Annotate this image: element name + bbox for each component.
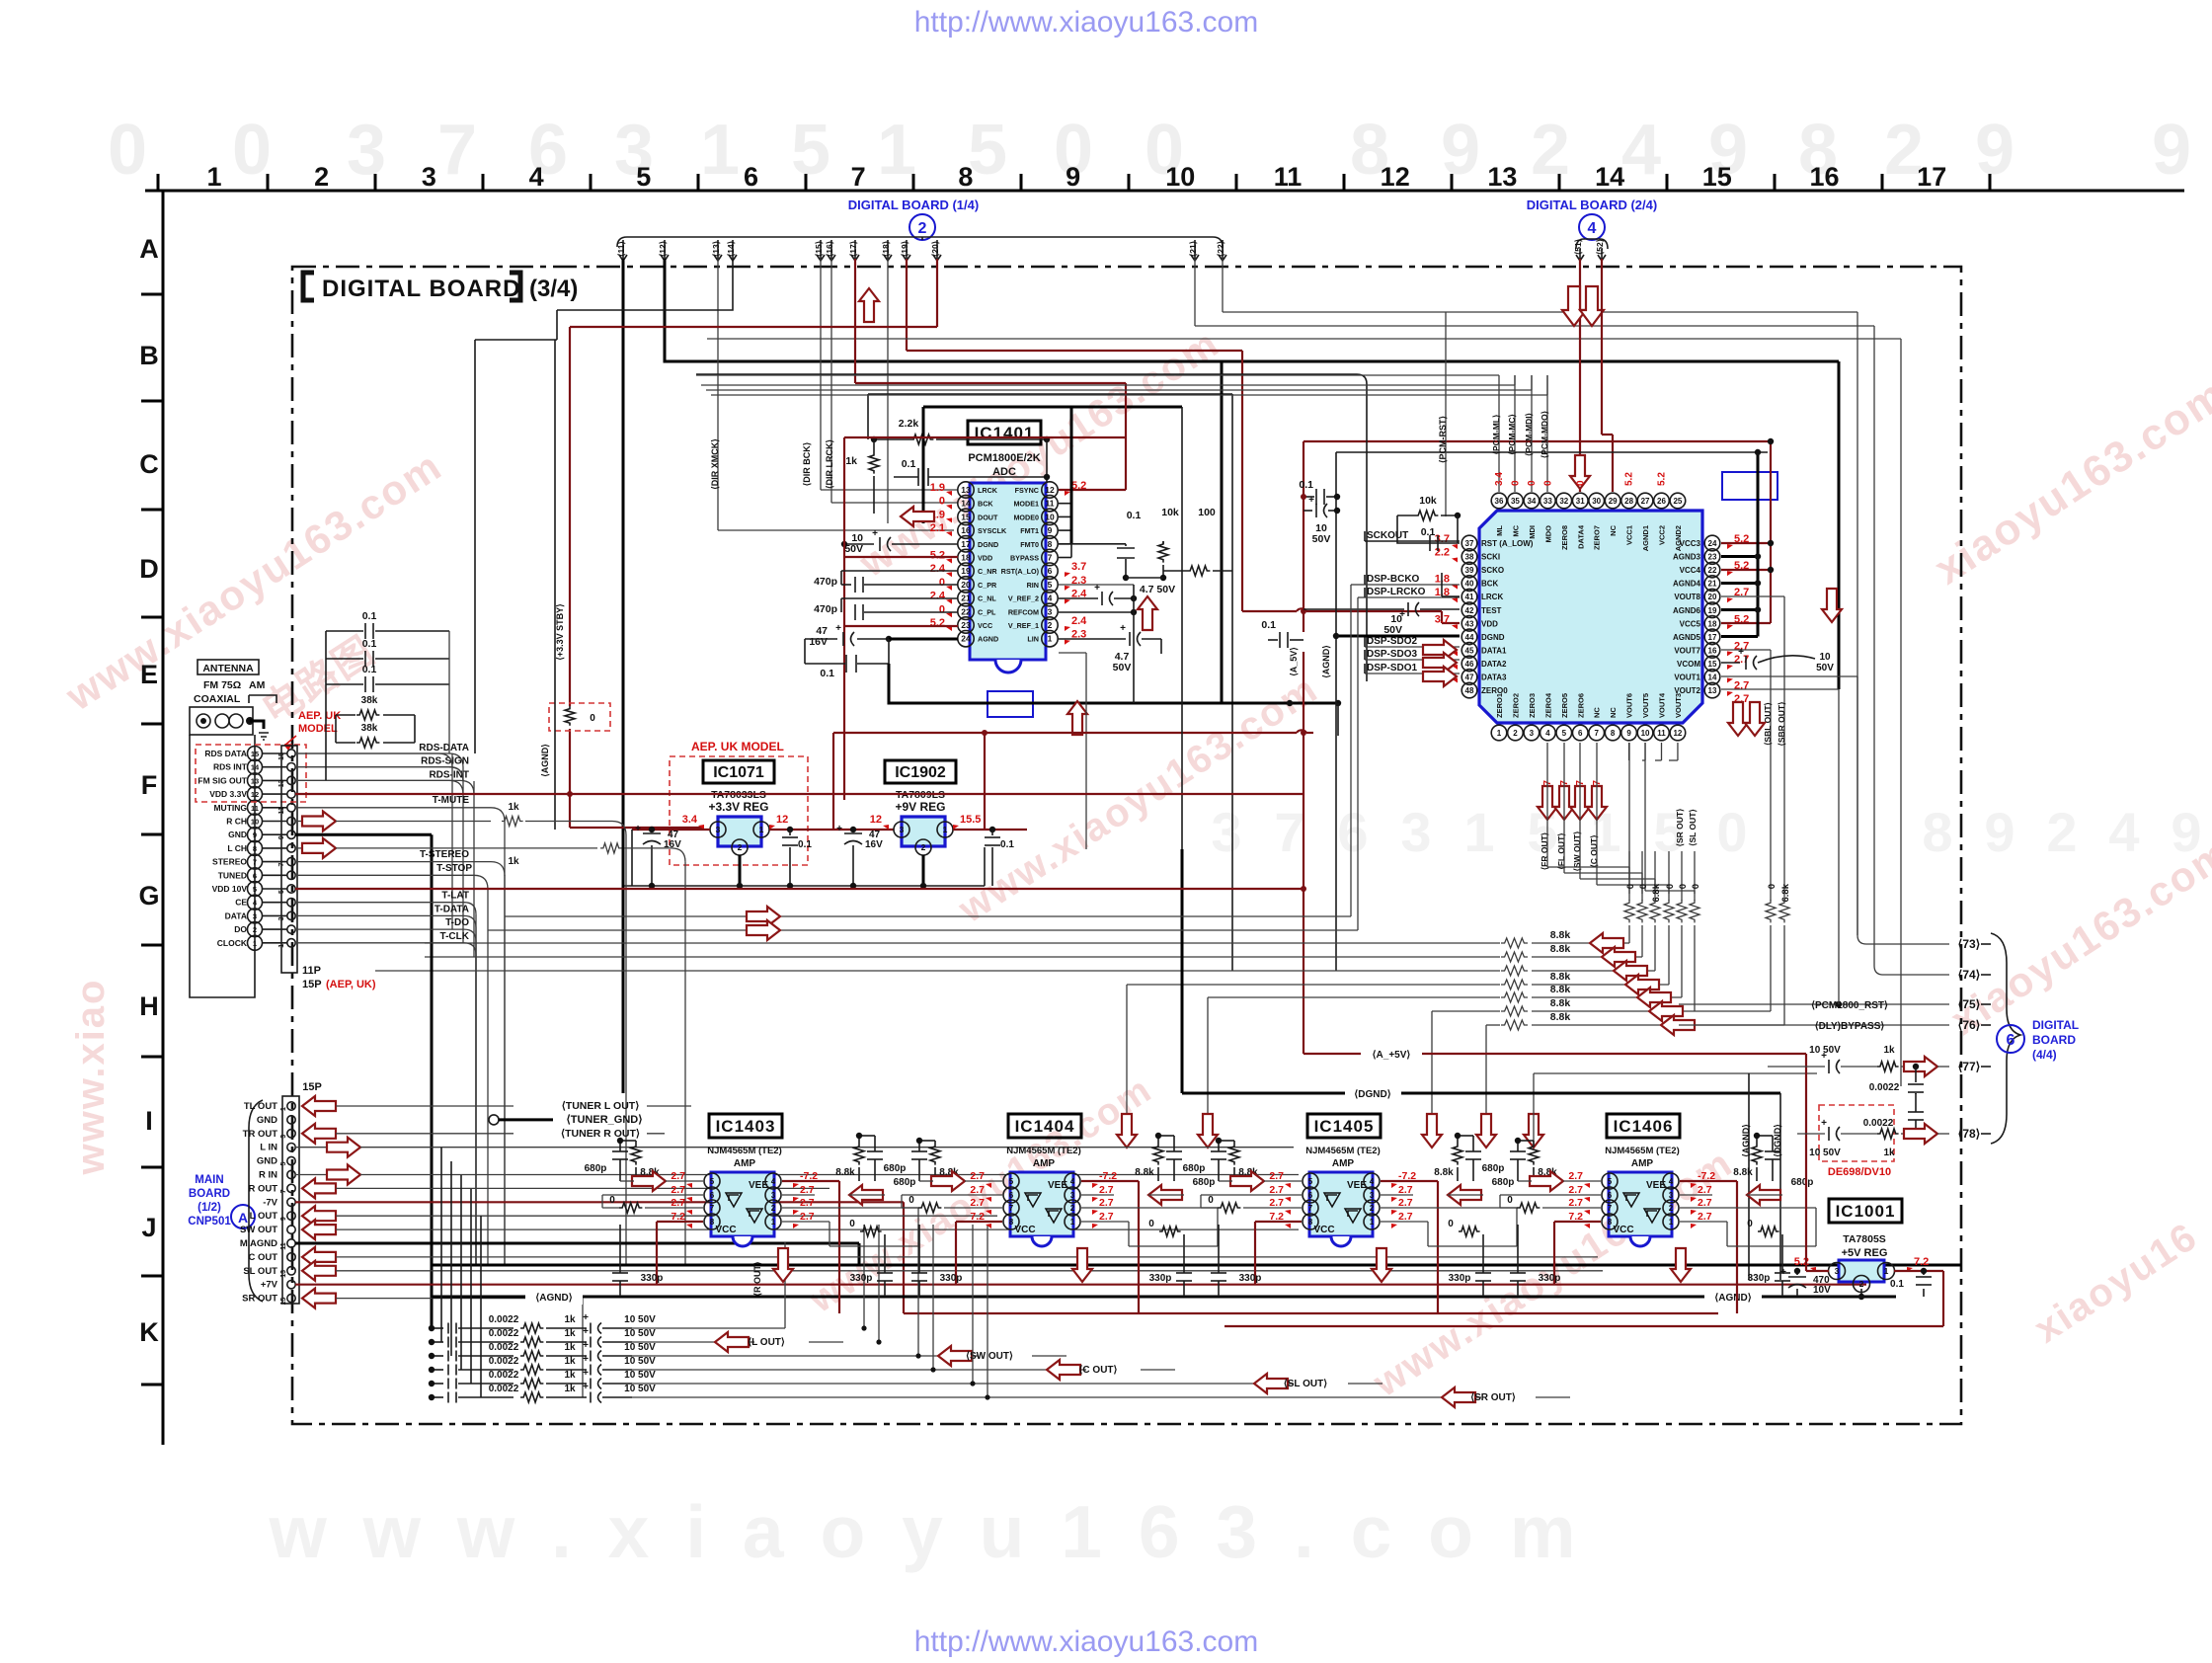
svg-text:9: 9 (1975, 111, 2014, 190)
svg-text:1: 1 (1048, 634, 1053, 644)
IC1401 blue empty box (987, 691, 1033, 717)
IC1001 input wire (1805, 1054, 1807, 1271)
svg-text:16: 16 (961, 525, 971, 535)
svg-text:8.8k: 8.8k (1550, 1011, 1571, 1023)
IC1401 top-left loop wires (1046, 439, 1048, 483)
svg-text:0.0022: 0.0022 (489, 1384, 519, 1394)
svg-text:3.7: 3.7 (1071, 561, 1086, 573)
svg-text:0: 0 (1716, 801, 1747, 863)
svg-text:NC: NC (1609, 524, 1618, 535)
svg-text:SW OUT: SW OUT (240, 1225, 277, 1235)
svg-text:4: 4 (1669, 1177, 1674, 1186)
svg-text:330p: 330p (1748, 1273, 1771, 1284)
IC1404 VCC wire (956, 1221, 1002, 1223)
svg-text:0.1: 0.1 (1261, 619, 1276, 631)
svg-text:680p: 680p (585, 1163, 607, 1174)
IC1902 output riser (984, 733, 986, 831)
svg-text:10: 10 (1641, 729, 1650, 738)
svg-text:8.8k: 8.8k (1733, 1167, 1753, 1178)
svg-text:680p: 680p (884, 1163, 907, 1174)
IC1452 pin 5 (1556, 725, 1572, 741)
svg-text:0.1: 0.1 (1890, 1279, 1904, 1290)
svg-text:⟨DIR BCK⟩: ⟨DIR BCK⟩ (802, 442, 812, 487)
svg-text:4: 4 (1048, 594, 1053, 603)
svg-text:⟨75⟩: ⟨75⟩ (1958, 997, 1981, 1011)
IC1401 pin 18 (958, 549, 974, 565)
IC1403 pin 5 (704, 1173, 720, 1189)
tuner body (190, 735, 255, 997)
svg-text:8: 8 (710, 1218, 715, 1227)
svg-text:39: 39 (1465, 566, 1474, 575)
IC1404 pin 2 (1065, 1200, 1080, 1216)
IC1404 pin 1 (1065, 1214, 1080, 1229)
svg-text:RST (A_LOW): RST (A_LOW) (1481, 539, 1534, 548)
svg-text:AGND5: AGND5 (1673, 633, 1701, 642)
IC1406 pin 2 (1663, 1200, 1679, 1216)
svg-text:GND: GND (228, 830, 247, 839)
IC1405 pin 5 (1303, 1173, 1318, 1189)
IC1452 pin 10 (1637, 725, 1653, 741)
AGND bottom loop (889, 664, 1338, 703)
svg-text:41: 41 (1465, 593, 1474, 601)
svg-text:NJM4565M (TE2): NJM4565M (TE2) (1006, 1146, 1081, 1156)
svg-text:47: 47 (1465, 673, 1474, 682)
ANTENNA label (197, 660, 259, 674)
CNP501 pin 8 (287, 1198, 295, 1206)
svg-text:w w w . x i a o y u 1 6 3 . c: w w w . x i a o y u 1 6 3 . c o m (268, 1490, 1583, 1573)
AGND vertical left (554, 340, 556, 691)
svg-text:AMP: AMP (1631, 1158, 1654, 1169)
svg-text:+: + (1738, 647, 1744, 658)
svg-text:8: 8 (1308, 1218, 1313, 1227)
CNP501 pin 5 (287, 1156, 295, 1164)
svg-text:44: 44 (1465, 633, 1474, 642)
svg-text:IC1001: IC1001 (1836, 1202, 1896, 1221)
svg-text:MAIN: MAIN (195, 1174, 223, 1186)
svg-text:H: H (139, 991, 159, 1021)
svg-text:RDS-DATA: RDS-DATA (419, 743, 469, 753)
svg-text:1: 1 (280, 1107, 287, 1111)
IC1404 pin 7 (1003, 1200, 1019, 1216)
svg-text:0.0022: 0.0022 (489, 1370, 519, 1381)
svg-text:5: 5 (1562, 729, 1567, 738)
svg-text:330p: 330p (1539, 1273, 1561, 1284)
IC1406 VCC wire (1554, 1221, 1601, 1223)
svg-text:T-STOP: T-STOP (436, 863, 472, 874)
svg-text:19: 19 (1708, 606, 1717, 615)
svg-text:28: 28 (1624, 497, 1633, 506)
svg-text:⟨R OUT⟩: ⟨R OUT⟩ (752, 1261, 762, 1296)
svg-text:NJM4565M (TE2): NJM4565M (TE2) (707, 1146, 782, 1156)
svg-text:470p: 470p (814, 603, 837, 615)
svg-text:A: A (139, 234, 159, 264)
svg-text:13: 13 (1708, 686, 1717, 695)
bottom pin wires down (1546, 743, 1548, 867)
svg-text:680p: 680p (894, 1177, 916, 1188)
svg-text:TA7805S: TA7805S (1843, 1233, 1886, 1245)
svg-text:⟨PCM-MDI⟩: ⟨PCM-MDI⟩ (1524, 413, 1534, 456)
svg-text:2.7: 2.7 (970, 1170, 985, 1182)
svg-text:COAXIAL: COAXIAL (194, 693, 241, 705)
svg-text:7: 7 (851, 162, 866, 192)
svg-text:2.7: 2.7 (1269, 1170, 1284, 1182)
svg-text:0: 0 (1148, 1219, 1154, 1229)
svg-text:7: 7 (280, 1189, 287, 1193)
svg-text:SYSCLK: SYSCLK (978, 526, 1007, 535)
svg-text:+: + (635, 824, 641, 834)
CNP501 pin 6 (287, 1170, 295, 1178)
svg-text:VOUT1: VOUT1 (1674, 673, 1700, 682)
svg-text:AMP: AMP (734, 1158, 756, 1169)
PCM-RST vertical (1445, 312, 1447, 516)
svg-text:13: 13 (278, 779, 285, 787)
svg-text:3: 3 (1530, 729, 1535, 738)
svg-text:1: 1 (1070, 1218, 1075, 1227)
IC1401 pin 21 (958, 590, 974, 605)
svg-text:LRCK: LRCK (1481, 593, 1503, 601)
svg-text:5: 5 (1308, 1177, 1313, 1186)
svg-text:16V: 16V (809, 636, 828, 648)
svg-text:7: 7 (278, 863, 285, 867)
svg-text:SL OUT: SL OUT (243, 1266, 277, 1277)
IC1001 body (1839, 1260, 1884, 1282)
IC1406 pin 7 (1602, 1200, 1618, 1216)
svg-text:0.1: 0.1 (1299, 479, 1313, 491)
svg-text:7: 7 (1594, 729, 1599, 738)
svg-text:⟨14⟩: ⟨14⟩ (726, 241, 736, 257)
svg-text:5: 5 (1048, 580, 1053, 590)
IC1452 pin 38 (1461, 549, 1477, 565)
svg-text:17: 17 (1708, 633, 1717, 642)
svg-text:5: 5 (280, 1162, 287, 1166)
svg-text:+: + (583, 1326, 589, 1337)
IC1406 pin 1 (1663, 1214, 1679, 1229)
svg-text:3: 3 (1370, 1191, 1375, 1200)
right side verticals to pins 73/74 (1856, 312, 1858, 935)
8.8k row wire (1127, 984, 1500, 986)
8.8k row wire (1486, 1024, 1500, 1026)
svg-text:8: 8 (1009, 1218, 1014, 1227)
antenna connector box (190, 707, 253, 735)
svg-text:DSP-SDO3: DSP-SDO3 (1367, 649, 1418, 660)
tuner pin 7 (248, 854, 263, 869)
long horizontals to right side (707, 338, 1901, 340)
IC1401 pin 1 (1042, 631, 1058, 647)
connector 4 circled 4 (1579, 214, 1605, 240)
svg-text:32: 32 (1559, 497, 1568, 506)
CNP501 pin 9 (287, 1212, 295, 1220)
IC1452 pin 22 (1704, 562, 1720, 578)
svg-text:⟨+3.3V STBY⟩: ⟨+3.3V STBY⟩ (555, 603, 565, 660)
svg-text:2: 2 (1531, 111, 1570, 190)
svg-text:DATA3: DATA3 (1481, 673, 1507, 682)
svg-text:6: 6 (1578, 729, 1583, 738)
svg-text:⟨PCM-ML⟩: ⟨PCM-ML⟩ (1491, 415, 1501, 455)
svg-text:ZERO2: ZERO2 (1511, 693, 1520, 718)
IC1452 pin 32 (1556, 493, 1572, 509)
svg-text:T-STEREO: T-STEREO (420, 849, 469, 860)
svg-text:3.4: 3.4 (682, 814, 698, 826)
svg-text:0.1: 0.1 (902, 458, 916, 470)
svg-text:7: 7 (1048, 553, 1053, 563)
svg-text:L IN: L IN (260, 1143, 277, 1153)
svg-text:IC1405: IC1405 (1314, 1117, 1375, 1136)
svg-text:DE698/DV10: DE698/DV10 (1828, 1166, 1891, 1178)
IC1401 pin 2 (1042, 617, 1058, 633)
svg-text:4: 4 (2108, 801, 2139, 863)
svg-text:7: 7 (253, 858, 257, 867)
svg-text:1k: 1k (564, 1384, 576, 1394)
svg-text:0.1: 0.1 (362, 664, 377, 675)
svg-text:2: 2 (314, 162, 329, 192)
column resistor (1628, 851, 1630, 901)
IC1404 right wires (1081, 1180, 1139, 1182)
svg-text:⟨DGND⟩: ⟨DGND⟩ (1354, 1089, 1390, 1100)
svg-text:5: 5 (1009, 1177, 1014, 1186)
svg-text:2.7: 2.7 (1568, 1184, 1583, 1196)
svg-text:470p: 470p (814, 576, 837, 588)
svg-text:2: 2 (771, 1204, 776, 1213)
svg-text:0: 0 (590, 713, 595, 724)
svg-text:TEST: TEST (1481, 606, 1502, 615)
IC1452 pin 35 (1508, 493, 1524, 509)
svg-text:FM 75Ω: FM 75Ω (203, 679, 241, 691)
IC1401 pin 12 (1042, 482, 1058, 498)
svg-text:AGND6: AGND6 (1673, 606, 1701, 615)
IC1405 VCC wire (1255, 1221, 1302, 1223)
svg-text:⟨AGND⟩: ⟨AGND⟩ (540, 744, 550, 777)
IC1401 pin 13 (958, 482, 974, 498)
8.8k row wire (1432, 1010, 1500, 1012)
IC1401 pin 19 (958, 563, 974, 579)
regulator IC1071 label box (703, 760, 774, 783)
IC1452 pin 13 (1704, 682, 1720, 698)
svg-text:RDS DATA: RDS DATA (204, 749, 247, 758)
svg-text:⟨C OUT⟩: ⟨C OUT⟩ (1079, 1365, 1118, 1376)
svg-text:2.7: 2.7 (1099, 1211, 1114, 1223)
IC1452 pin 20 (1704, 589, 1720, 604)
svg-text:CLOCK: CLOCK (217, 938, 248, 948)
svg-text:13: 13 (251, 776, 259, 785)
svg-text:AGND3: AGND3 (1673, 553, 1701, 562)
svg-text:0: 0 (849, 1219, 855, 1229)
IC1452 label box (1556, 585, 1629, 609)
svg-text:ZERO7: ZERO7 (1593, 525, 1602, 550)
svg-text:3: 3 (347, 111, 386, 190)
IC1452 pin 42 (1461, 602, 1477, 618)
8.8k row wire (425, 942, 1500, 944)
CNP501 pin 14 (287, 1281, 295, 1289)
svg-text:0.1: 0.1 (820, 668, 834, 679)
svg-text:⟨AGND⟩: ⟨AGND⟩ (1741, 1124, 1751, 1157)
svg-text:1: 1 (700, 111, 740, 190)
svg-text:0: 0 (1665, 884, 1676, 889)
svg-text:5: 5 (636, 162, 651, 192)
svg-text:⟨A_+5V⟩: ⟨A_+5V⟩ (1373, 1050, 1411, 1061)
svg-text:2: 2 (738, 842, 743, 852)
CNP501 pin 15 (287, 1294, 295, 1302)
svg-text:R OUT: R OUT (248, 1183, 277, 1194)
svg-text:http://www.xiaoyu163.com: http://www.xiaoyu163.com (914, 1625, 1259, 1658)
red arrow up near 17 (859, 288, 879, 322)
svg-text:2.7: 2.7 (1568, 1170, 1583, 1182)
svg-text:4: 4 (1070, 1177, 1075, 1186)
svg-text:9: 9 (280, 1217, 287, 1221)
CNP501 pin 1 (287, 1102, 295, 1110)
svg-text:T-CLK: T-CLK (440, 931, 470, 942)
svg-text:33: 33 (1543, 497, 1552, 506)
left frame line (162, 191, 165, 1445)
svg-text:0.0022: 0.0022 (489, 1328, 519, 1339)
svg-text:NJM4565M (TE2): NJM4565M (TE2) (1605, 1146, 1680, 1156)
svg-text:13: 13 (1487, 162, 1517, 192)
svg-text:21: 21 (961, 594, 971, 603)
svg-text:38k: 38k (361, 695, 378, 706)
svg-text:40: 40 (1465, 580, 1474, 589)
svg-text:⟨PCM-MDO⟩: ⟨PCM-MDO⟩ (1540, 411, 1549, 458)
svg-text:+9V REG: +9V REG (895, 800, 945, 814)
svg-text:11: 11 (1046, 499, 1055, 509)
svg-text:330p: 330p (940, 1273, 963, 1284)
svg-text:2: 2 (1370, 1204, 1375, 1213)
svg-text:38k: 38k (361, 723, 378, 734)
svg-text:IC1403: IC1403 (716, 1117, 776, 1136)
svg-text:5: 5 (710, 1177, 715, 1186)
svg-text:680p: 680p (1791, 1177, 1814, 1188)
svg-text:VCC3: VCC3 (1680, 539, 1701, 548)
svg-text:ML: ML (1495, 525, 1504, 536)
IC1401 pin 17 (958, 536, 974, 552)
svg-text:8: 8 (1922, 801, 1952, 863)
IC1001 output dark red (1894, 1270, 1943, 1272)
svg-text:0: 0 (1507, 1195, 1513, 1206)
svg-text:15P: 15P (302, 979, 322, 990)
svg-text:17: 17 (961, 539, 971, 549)
svg-text:21: 21 (1708, 580, 1717, 589)
svg-text:VCC: VCC (978, 621, 992, 630)
svg-text:⟨15⟩: ⟨15⟩ (814, 241, 824, 257)
svg-text:22: 22 (961, 606, 971, 616)
svg-text:(3/4): (3/4) (529, 276, 578, 302)
wire 1862 bottom (1838, 689, 1840, 1004)
svg-text:⟨TUNER R OUT⟩: ⟨TUNER R OUT⟩ (561, 1128, 640, 1140)
svg-text:11: 11 (278, 807, 285, 815)
L CH arrow (295, 847, 302, 849)
tuner signal wires (295, 752, 449, 754)
svg-text:8.8k: 8.8k (1550, 984, 1571, 995)
svg-text:VDD: VDD (978, 554, 992, 563)
svg-text:ZERO3: ZERO3 (1528, 693, 1537, 718)
red arrows right of chip (1728, 702, 1748, 736)
wire 20 dark red to 331 (936, 259, 938, 327)
svg-text:0.1: 0.1 (362, 638, 377, 650)
svg-text:18: 18 (961, 553, 971, 563)
IC1406 pin 8 (1602, 1214, 1618, 1229)
wire verticals from connector 2 (622, 259, 625, 1093)
connector 2 bracket (617, 237, 1223, 247)
svg-text:9: 9 (1441, 111, 1480, 190)
IC1452 pin 43 (1461, 616, 1477, 632)
row verticals down to opamps (1126, 985, 1128, 1146)
svg-text:2.7: 2.7 (1099, 1184, 1114, 1196)
IC1452 pin 45 (1461, 643, 1477, 659)
svg-text:VOUT3: VOUT3 (1674, 693, 1683, 718)
svg-text:SR OUT: SR OUT (242, 1294, 277, 1305)
svg-text:NC: NC (1593, 707, 1602, 718)
svg-text:IC1071: IC1071 (713, 764, 764, 781)
IC1403 VCC wire (657, 1221, 703, 1223)
left stack verticals (440, 1148, 442, 1342)
svg-text:2.7: 2.7 (800, 1211, 815, 1223)
svg-text:2.7: 2.7 (1269, 1184, 1284, 1196)
svg-text:0: 0 (232, 111, 272, 190)
svg-text:0: 0 (1625, 884, 1636, 889)
svg-text:0.0022: 0.0022 (489, 1314, 519, 1325)
svg-text:T-MUTE: T-MUTE (433, 795, 470, 806)
svg-text:680p: 680p (1183, 1163, 1206, 1174)
CNP501 brace (249, 1100, 263, 1302)
svg-text:7: 7 (1009, 1204, 1014, 1213)
svg-text:27: 27 (1641, 497, 1650, 506)
IC1401 pin 20 (958, 577, 974, 593)
svg-text:24: 24 (1708, 539, 1717, 548)
svg-text:1k: 1k (564, 1328, 576, 1339)
svg-text:4: 4 (771, 1177, 776, 1186)
svg-text:AGND4: AGND4 (1673, 580, 1701, 589)
svg-text:FMT0: FMT0 (1020, 540, 1039, 549)
svg-text:30: 30 (1592, 497, 1601, 506)
IC1403 pin 4 (765, 1173, 781, 1189)
svg-text:LIN: LIN (1027, 635, 1039, 644)
IC1452 pin 6 (1572, 725, 1588, 741)
svg-text:1: 1 (943, 825, 948, 834)
svg-text:+: + (1094, 583, 1100, 594)
svg-text:4: 4 (1621, 111, 1661, 190)
DSP data arrows (1423, 640, 1457, 660)
svg-text:2: 2 (1070, 1204, 1075, 1213)
svg-text:17: 17 (1917, 162, 1946, 192)
IC1401 pin 3 (1042, 603, 1058, 619)
svg-text:3: 3 (253, 911, 257, 920)
svg-text:29: 29 (1609, 497, 1618, 506)
RC row 6 (432, 1396, 443, 1398)
VDD3.3 dark red long (295, 793, 1303, 795)
svg-text:MODEL: MODEL (298, 723, 338, 735)
svg-text:+7V: +7V (261, 1280, 278, 1291)
svg-text:DIGITAL BOARD: DIGITAL BOARD (322, 276, 520, 302)
svg-text:VDD 3.3V: VDD 3.3V (209, 789, 247, 799)
IC1404 pin 3 (1065, 1187, 1080, 1203)
svg-text:⟨51⟩: ⟨51⟩ (1573, 239, 1583, 255)
svg-text:0.0022: 0.0022 (1869, 1082, 1900, 1093)
svg-text:3: 3 (900, 825, 905, 834)
svg-text:FM SIG OUT: FM SIG OUT (197, 775, 247, 785)
svg-text:⟨17⟩: ⟨17⟩ (848, 241, 858, 257)
svg-text:+5V REG: +5V REG (1842, 1247, 1888, 1259)
svg-text:+3.3V REG: +3.3V REG (708, 800, 768, 814)
svg-text:3: 3 (422, 162, 436, 192)
svg-text:AEP. UK: AEP. UK (298, 710, 341, 722)
svg-text:1.9: 1.9 (930, 482, 945, 494)
svg-text:330p: 330p (1239, 1273, 1262, 1284)
IC1401 right-side wires (1059, 489, 1126, 491)
IC1452 pin 26 (1654, 493, 1670, 509)
DGND bus (1181, 849, 1184, 1093)
svg-text:3: 3 (771, 1191, 776, 1200)
svg-text:38: 38 (1465, 553, 1474, 562)
svg-text:MODE0: MODE0 (1013, 513, 1039, 521)
svg-text:DATA2: DATA2 (1481, 660, 1507, 669)
